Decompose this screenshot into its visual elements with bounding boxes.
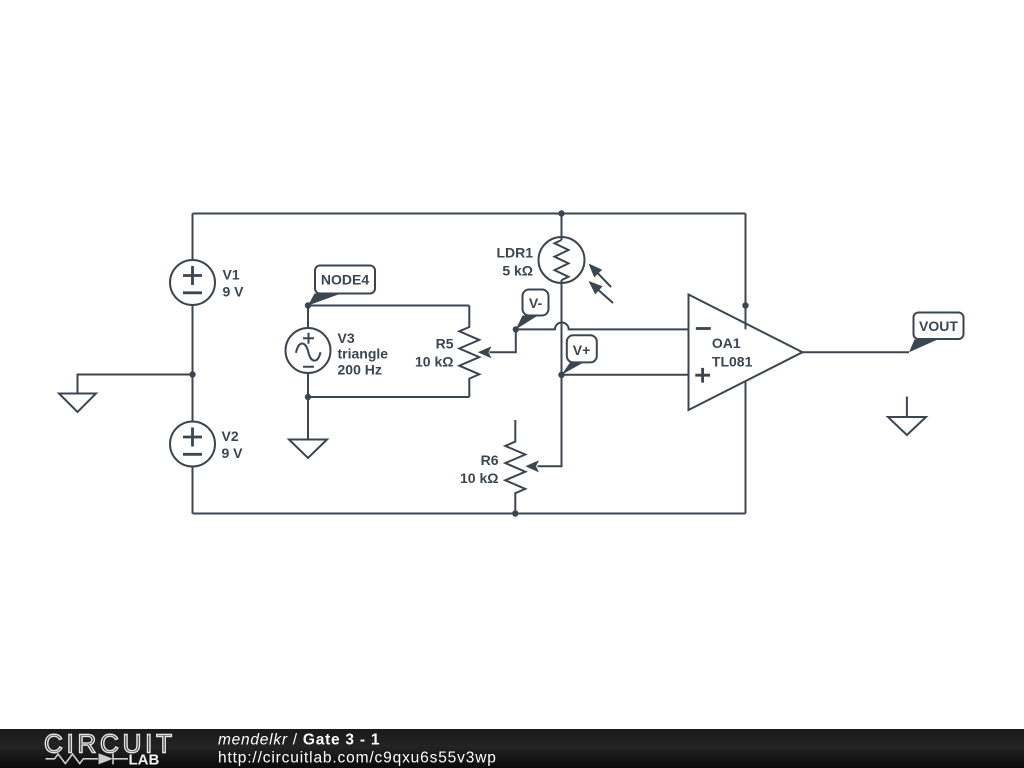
node V- junction (513, 326, 519, 332)
svg-text:R6: R6 (481, 452, 499, 468)
R6 wiper arrowhead (525, 460, 539, 472)
ground right (888, 417, 926, 435)
wire top rail (193, 213, 746, 215)
wire loop top rail (308, 305, 469, 307)
voltage source V1 (170, 260, 244, 305)
node V3 bottom junction (305, 394, 311, 400)
svg-text:NODE4: NODE4 (321, 272, 369, 288)
node top rail junction (558, 210, 564, 216)
wire V3 ground stub (307, 397, 309, 440)
voltage source V2 (170, 422, 243, 467)
label NODE4 (308, 266, 375, 306)
wire R5 wiper (490, 329, 516, 352)
svg-text:mendelkr / Gate 3 - 1: mendelkr / Gate 3 - 1 (218, 732, 380, 749)
wire bottom rail (193, 513, 746, 515)
logo resistor-diode (46, 753, 129, 764)
svg-text:V1: V1 (223, 267, 240, 283)
wire V+ rail (562, 374, 689, 376)
potentiometer R5 (415, 306, 479, 398)
wire LDR top lead (561, 214, 563, 241)
wire to left ground (78, 375, 193, 394)
svg-text:LAB: LAB (129, 752, 160, 768)
label V- (516, 290, 549, 330)
wire right rail upper (745, 214, 747, 330)
svg-text:VOUT: VOUT (919, 318, 958, 334)
svg-text:10 kΩ: 10 kΩ (460, 470, 498, 486)
photoresistor LDR1 (496, 237, 584, 283)
svg-text:9 V: 9 V (223, 284, 245, 300)
wire right ground stub (906, 397, 908, 418)
R5 wiper arrowhead (478, 346, 492, 358)
label VOUT (909, 313, 964, 353)
ground V3 (289, 440, 327, 459)
node junction left-ground (189, 371, 195, 377)
wire left rail upper (192, 214, 194, 261)
node NODE4 junction (305, 302, 311, 308)
svg-text:triangle: triangle (338, 346, 389, 362)
node R6 bottom junction (512, 510, 518, 516)
LDR1 light arrow 2 (589, 281, 614, 303)
wire loop bottom rail (308, 396, 469, 398)
potentiometer R6 (460, 420, 525, 514)
svg-text:V3: V3 (338, 330, 355, 346)
svg-text:V2: V2 (222, 428, 239, 444)
svg-text:V-: V- (529, 295, 543, 311)
label V+ (562, 335, 597, 375)
wire op-amp output (803, 351, 910, 353)
svg-text:R5: R5 (436, 336, 454, 352)
svg-text:V+: V+ (573, 342, 591, 358)
svg-text:OA1: OA1 (712, 335, 741, 351)
wire right rail lower (745, 381, 747, 514)
wire left rail lower (192, 467, 194, 514)
voltage source V3 (286, 328, 389, 377)
LDR1 light arrow 1 (589, 264, 612, 288)
svg-text:http://circuitlab.com/c9qxu6s5: http://circuitlab.com/c9qxu6s55v3wp (218, 749, 497, 766)
svg-text:LDR1: LDR1 (496, 245, 533, 261)
wire V3 top lead (307, 306, 309, 329)
wire LDR bottom lead (538, 280, 562, 466)
svg-text:TL081: TL081 (712, 354, 753, 370)
op-amp OA1 (689, 295, 803, 411)
svg-text:200 Hz: 200 Hz (338, 361, 382, 377)
node V+ junction (558, 372, 564, 378)
wire V- rail with hop (516, 323, 689, 330)
svg-text:10 kΩ: 10 kΩ (415, 354, 453, 370)
svg-text:5 kΩ: 5 kΩ (502, 263, 533, 279)
node op-amp V+ supply junction (742, 302, 748, 308)
ground left (59, 394, 96, 413)
footer bar (0, 729, 1024, 768)
wire left rail middle (192, 305, 194, 422)
svg-text:9 V: 9 V (222, 445, 244, 461)
wire V3 bottom lead (307, 373, 309, 397)
